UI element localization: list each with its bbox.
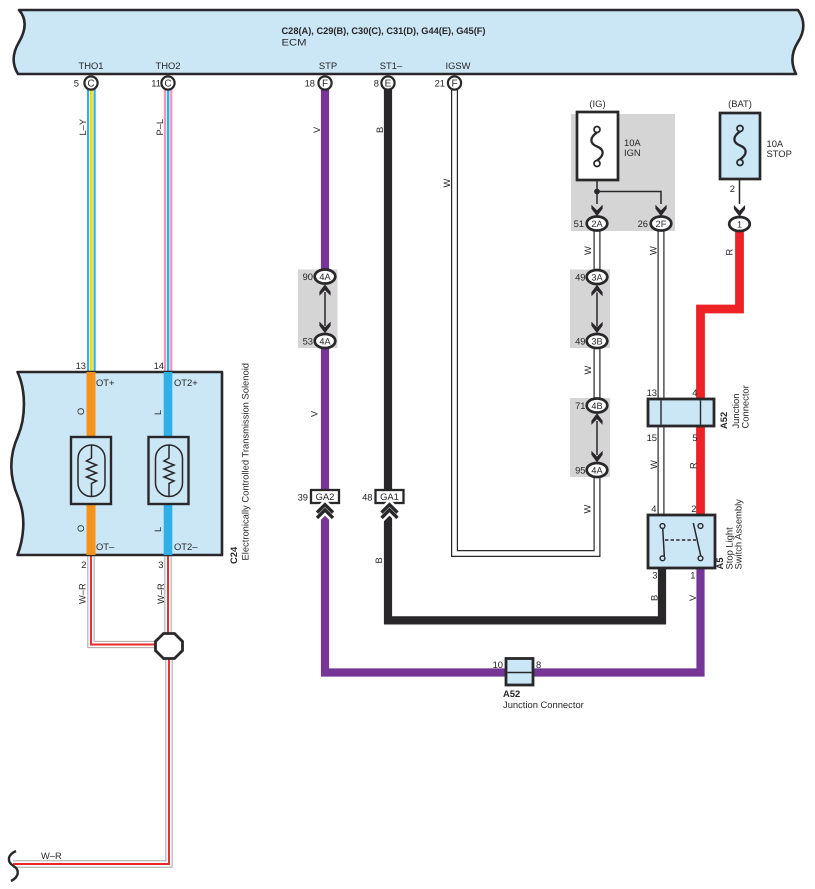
svg-text:O: O	[76, 525, 86, 532]
solenoid coil OT2	[149, 437, 189, 504]
junction dot	[594, 189, 600, 195]
svg-text:W: W	[583, 246, 593, 255]
svg-text:A52: A52	[503, 688, 520, 699]
svg-text:ECM: ECM	[282, 38, 307, 49]
svg-text:49: 49	[575, 336, 585, 347]
svg-text:95: 95	[575, 465, 585, 476]
terminal THO2	[155, 60, 180, 71]
junction connector A52 (upper)	[647, 385, 751, 443]
svg-text:W: W	[442, 179, 452, 188]
svg-text:Connector: Connector	[740, 385, 751, 428]
svg-text:3: 3	[158, 559, 163, 570]
torn end squiggle	[9, 851, 18, 881]
wire W-R from C24 pin 3 to splice	[156, 555, 168, 646]
wire R from fuse STOP to A5 pin 2	[689, 228, 740, 516]
svg-text:W: W	[583, 505, 593, 514]
svg-text:8: 8	[536, 659, 541, 670]
pin circle 21 F	[435, 76, 462, 89]
wire W from 2F to A5 pin 4	[649, 228, 662, 516]
harness shade box around connector pair 4A/4A	[298, 270, 338, 349]
connector oval 2A pin 51	[574, 217, 608, 231]
svg-text:THO2: THO2	[155, 60, 180, 71]
junction connector A52 (lower)	[493, 659, 584, 711]
svg-text:Junction Connector: Junction Connector	[503, 699, 584, 710]
connector pair arrows 3A/3B	[591, 285, 602, 334]
harness shade box around fuse IGN and connectors 2A/2F	[571, 114, 675, 231]
terminal ST1-	[380, 60, 403, 71]
svg-text:V: V	[312, 126, 322, 133]
svg-text:C24: C24	[228, 546, 239, 564]
svg-text:2: 2	[730, 183, 735, 194]
svg-text:90: 90	[303, 271, 313, 282]
svg-text:1: 1	[690, 570, 695, 581]
connector oval 4A pin 90	[303, 270, 336, 284]
connector oval 4A pin 53	[303, 334, 336, 348]
connector pair arrows 4A/4A	[319, 284, 330, 333]
svg-text:5: 5	[692, 432, 697, 443]
wire W from 3B to 4B	[583, 344, 597, 402]
svg-text:5: 5	[74, 78, 79, 89]
svg-text:L–Y: L–Y	[78, 119, 88, 136]
pin circle 5 C	[74, 76, 98, 89]
svg-text:STOP: STOP	[767, 148, 792, 159]
svg-text:2: 2	[81, 559, 86, 570]
svg-text:4: 4	[651, 503, 656, 514]
svg-text:W: W	[649, 246, 659, 255]
svg-text:1: 1	[737, 219, 742, 229]
svg-text:C: C	[164, 79, 171, 90]
svg-text:3: 3	[652, 570, 657, 581]
svg-text:21: 21	[435, 78, 445, 89]
svg-text:26: 26	[638, 218, 648, 229]
internal wire L (blue)	[164, 372, 173, 555]
connector oval 3B pin 49	[575, 334, 607, 348]
svg-text:49: 49	[575, 272, 585, 283]
svg-text:4A: 4A	[591, 465, 603, 475]
connector oval 4A pin 95	[575, 463, 607, 477]
wire W-R from C24 pin 2 to splice	[78, 555, 170, 645]
svg-text:STP: STP	[319, 60, 337, 71]
harness shade box around connector pair 4B/4A	[570, 398, 610, 477]
terminal STP	[319, 60, 337, 71]
svg-text:(BAT): (BAT)	[728, 98, 752, 109]
svg-text:2A: 2A	[591, 219, 603, 229]
arrow into connector 2A	[591, 205, 602, 217]
svg-text:W–R: W–R	[41, 851, 62, 861]
svg-text:L: L	[153, 410, 163, 415]
svg-text:O: O	[76, 408, 86, 415]
svg-text:B: B	[650, 595, 660, 601]
wire W from 2A to 3A	[583, 228, 597, 272]
terminal IGSW	[446, 60, 471, 71]
svg-text:3A: 3A	[591, 272, 603, 282]
svg-text:4A: 4A	[319, 336, 331, 346]
svg-text:(IG): (IG)	[589, 98, 605, 109]
svg-text:2: 2	[691, 503, 696, 514]
ground GA1 pin 48	[362, 490, 403, 519]
ground GA2 pin 39	[298, 490, 339, 519]
wire W-R from splice to bottom torn end	[13, 646, 169, 864]
C24 Electronically Controlled Transmission Solenoid block	[11, 372, 222, 555]
svg-text:39: 39	[298, 492, 308, 503]
svg-text:C: C	[87, 79, 94, 90]
solenoid coil OT	[71, 437, 111, 504]
wire W (IGSW) loop to connector 4A pin 95	[442, 89, 597, 554]
terminal THO1	[78, 60, 103, 71]
svg-text:V: V	[310, 410, 320, 417]
stop light switch assembly A5	[648, 499, 744, 581]
wire L-Y THO1 to C24 pin 13	[78, 89, 96, 372]
svg-text:51: 51	[574, 218, 584, 229]
svg-text:15: 15	[647, 432, 657, 443]
fuse STOP 10A	[720, 98, 792, 179]
svg-text:E: E	[385, 79, 392, 90]
svg-text:IGSW: IGSW	[446, 60, 471, 71]
harness shade box around connector pair 3A/3B	[570, 270, 610, 349]
connector pair arrows 4B/4A	[591, 413, 602, 462]
svg-text:P–L: P–L	[155, 119, 165, 136]
svg-text:W–R: W–R	[156, 583, 166, 604]
wire from fuse IGN to branch	[596, 180, 598, 204]
svg-text:B: B	[374, 557, 384, 563]
svg-text:OT+: OT+	[96, 377, 115, 388]
svg-text:18: 18	[305, 78, 315, 89]
svg-text:C28(A), C29(B), C30(C), C31(D): C28(A), C29(B), C30(C), C31(D), G44(E), …	[282, 26, 486, 37]
svg-text:2F: 2F	[656, 219, 667, 229]
svg-text:13: 13	[76, 360, 86, 371]
svg-text:3B: 3B	[591, 336, 602, 346]
svg-text:OT–: OT–	[96, 541, 115, 552]
svg-text:ST1–: ST1–	[380, 60, 403, 71]
svg-text:48: 48	[362, 492, 372, 503]
svg-text:L: L	[153, 527, 163, 532]
svg-text:THO1: THO1	[78, 60, 103, 71]
svg-text:53: 53	[303, 336, 313, 347]
svg-text:F: F	[322, 79, 328, 90]
branch wire to 2F	[597, 192, 661, 205]
ECM block	[14, 10, 804, 74]
connector oval 4B pin 71	[575, 399, 607, 413]
splice octagon	[156, 634, 183, 659]
svg-text:V: V	[688, 594, 698, 601]
connector oval 1	[729, 217, 750, 231]
svg-text:OT2–: OT2–	[174, 541, 198, 552]
svg-text:OT2+: OT2+	[174, 377, 198, 388]
pin circle 11 C	[151, 76, 174, 89]
arrow into connector 1	[734, 205, 745, 217]
svg-text:10: 10	[493, 659, 503, 670]
wire B (ST1-) to A5 pin 3	[374, 89, 662, 620]
svg-text:13: 13	[647, 387, 657, 398]
svg-text:B: B	[375, 127, 385, 133]
connector oval 2F pin 26	[638, 217, 672, 231]
svg-text:71: 71	[575, 400, 585, 411]
svg-text:11: 11	[151, 78, 161, 89]
internal wire O (orange)	[87, 372, 96, 555]
svg-text:8: 8	[374, 78, 379, 89]
svg-text:W: W	[649, 460, 659, 469]
wire V (STP) to A5 pin 1	[310, 89, 701, 673]
svg-text:14: 14	[154, 360, 164, 371]
svg-text:W–R: W–R	[78, 583, 88, 604]
svg-text:F: F	[451, 79, 457, 90]
svg-text:A52: A52	[718, 412, 729, 429]
wire P-L THO2 to C24 pin 14	[155, 89, 172, 372]
arrow into connector 2F	[655, 205, 666, 217]
fuse IGN 10A	[577, 98, 641, 180]
svg-text:4A: 4A	[319, 272, 331, 282]
svg-text:4B: 4B	[591, 401, 602, 411]
svg-text:W: W	[583, 366, 593, 375]
pin circle 18 F	[305, 76, 332, 89]
svg-text:Electronically Controlled Tran: Electronically Controlled Transmission S…	[239, 363, 250, 561]
svg-text:IGN: IGN	[624, 147, 641, 158]
svg-text:R: R	[725, 249, 735, 256]
connector oval 3A pin 49	[575, 270, 607, 284]
pin circle 8 E	[374, 76, 395, 89]
svg-text:4: 4	[692, 387, 697, 398]
svg-text:Switch Assembly: Switch Assembly	[733, 499, 744, 570]
wire from fuse STOP to arrow	[739, 179, 741, 204]
svg-text:R: R	[689, 462, 699, 469]
